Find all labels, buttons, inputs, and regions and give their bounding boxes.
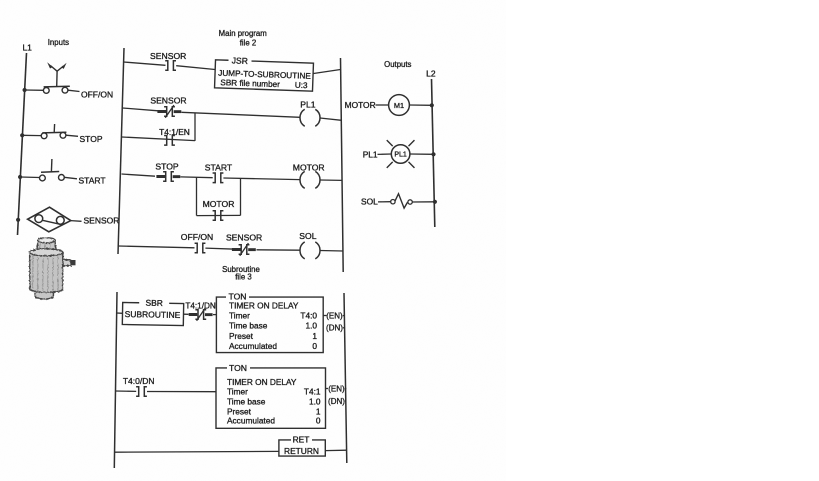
contact T4:1/EN NO [164,136,175,146]
wire MOTOR coil to right rail [320,179,342,181]
junction L1-OFF/ON [23,88,27,92]
wire SENSOR to SOL coil [257,249,301,251]
junction L1-START [18,175,22,179]
junction L2-SOL [433,200,437,204]
wire T4:0/DN to TON2 [147,391,216,393]
wire branch T4:1/EN [122,137,195,141]
instruction box SBR [122,302,183,325]
wire rung1 left [124,62,166,65]
wire PL1 coil to right rail [320,118,342,120]
wire RET to right rail [325,449,347,451]
wire rung4 left [119,246,195,248]
wire T4:1/DN to TON1 [213,314,217,316]
output EN TON2 [326,388,329,390]
switch OFF/ON selector [25,89,44,91]
wire rung1 to JSR [176,66,215,70]
subroutine left rail [114,292,117,468]
wire SOL coil to right rail [320,250,343,253]
wire OFF/ON to SENSOR [205,248,236,249]
branch riser right rung3 [240,178,242,215]
main ladder right rail [341,58,344,272]
main ladder left rail [118,48,124,254]
contact START NO [213,173,224,183]
coil MOTOR [315,171,320,188]
wire JSR to right rail [314,70,341,74]
junction L2-PL1 [431,152,435,156]
sensor switch diamond [28,207,71,232]
contact SENSOR NC rung2 [164,107,175,117]
junction L1-SENSOR [16,218,20,222]
instruction box JSR [215,60,314,91]
wire rung2 to PL1 coil [182,112,301,117]
subroutine right rail [344,293,347,463]
wire rung2 left [123,108,159,111]
junction L2-M1 [430,103,434,107]
wire rung3 left [122,174,156,176]
output EN TON1 [323,315,326,317]
pushbutton STOP [22,134,41,136]
branch wire MOTOR contact [197,214,241,216]
lamp rays [387,140,393,146]
wire START to MOTOR coil [223,178,300,180]
branch riser left rung3 [196,177,198,215]
wire rungS3 left [115,450,280,453]
coil PL1 [315,109,320,126]
contact SENSOR NC rung4 [239,245,250,255]
output power rail L2 [432,79,435,227]
branch riser rung2 [194,113,196,141]
contact OFF/ON NO rung4 [195,243,206,253]
pushbutton START [20,176,39,179]
wire rungS2 left [115,390,136,392]
instruction box TON T4:0 [216,297,323,353]
contact STOP rung3 [163,172,174,182]
wire SBR to T4:1/DN [184,313,189,315]
contact MOTOR NO seal-in [213,211,224,221]
contact T4:0/DN NO [136,387,147,397]
junction L1-STOP [20,133,24,137]
instruction box TON T4:1 [216,368,326,428]
instruction box RET [279,440,325,456]
power rail L1 [18,53,27,235]
wire rungS1 left [117,312,123,314]
contact SENSOR NO rung1 [165,61,176,71]
contact T4:1/DN NC [195,310,206,320]
wire STOP to START [181,176,213,179]
coil SOL [315,242,320,259]
